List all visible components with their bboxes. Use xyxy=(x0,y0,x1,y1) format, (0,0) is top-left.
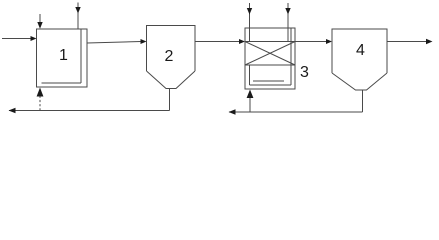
unit 4 clarifier body xyxy=(332,29,387,73)
svg-text:1: 1 xyxy=(59,47,68,64)
wire unit 2 to unit 3 xyxy=(195,41,239,43)
arrowhead down mid-line (unit 3 right feed) xyxy=(285,8,290,15)
arrowhead influent into unit 1 xyxy=(31,36,37,41)
unit 3 cross brace diagonal B xyxy=(245,42,295,66)
wire unit 3 to unit 4 xyxy=(295,41,326,43)
arrowhead up into unit 1 bottom xyxy=(37,88,44,97)
arrowhead into unit 4 xyxy=(326,39,332,44)
wire unit 1 to unit 2 xyxy=(87,42,141,44)
arrowhead down mid-line (unit 3 left feed) xyxy=(247,8,252,15)
unit 3 distributor band top line xyxy=(245,41,295,43)
unit 3 support plate xyxy=(253,80,284,82)
unit 4 hopper funnel xyxy=(332,73,387,90)
wire unit 4 underflow drop xyxy=(362,90,364,112)
wire feed drop left into unit 1 top xyxy=(39,14,41,23)
wire feed drop left into unit 3 xyxy=(249,3,251,41)
unit 1 tank outer rectangle xyxy=(37,29,88,87)
arrowhead effluent xyxy=(426,39,433,44)
unit 3 outer rectangle xyxy=(245,28,295,89)
unit 3 distributor band bottom line xyxy=(245,64,295,66)
unit 2 hopper funnel xyxy=(147,71,196,89)
wire effluent out xyxy=(387,41,427,43)
arrowhead down onto unit 1 top (left) xyxy=(37,22,42,29)
wire recycle riser into unit 3 xyxy=(249,97,251,112)
wire dashed recycle riser into unit 1 xyxy=(39,96,41,111)
svg-text:2: 2 xyxy=(165,48,174,65)
wire feed drop right into unit 3 xyxy=(287,3,289,41)
wire sludge return line left (bottom) xyxy=(9,110,170,112)
wire sludge return line right (bottom) xyxy=(229,111,363,113)
arrowhead into unit 3 xyxy=(239,39,245,44)
arrowhead into unit 2 xyxy=(141,39,147,44)
unit 3 inner left wall xyxy=(249,65,251,85)
svg-text:3: 3 xyxy=(300,64,309,81)
unit 3 inner bottom xyxy=(250,84,292,86)
wire feed drop right into unit 1 top xyxy=(77,3,79,30)
arrowhead up into unit 3 bottom xyxy=(247,90,254,99)
unit 3 cross brace diagonal A xyxy=(245,42,295,66)
arrowhead waste sludge out (right line) xyxy=(229,109,236,114)
unit 1 inner right wall xyxy=(80,30,82,84)
unit 3 inner right wall xyxy=(290,29,292,86)
svg-text:4: 4 xyxy=(356,42,365,59)
unit 1 inner false bottom xyxy=(42,82,82,84)
arrowhead down mid-line (unit 1 right feed) xyxy=(75,7,80,14)
arrowhead waste sludge out left xyxy=(9,108,16,113)
wire influent line xyxy=(2,38,31,40)
unit 2 clarifier body xyxy=(147,26,196,72)
wire unit 2 underflow drop xyxy=(169,89,171,111)
